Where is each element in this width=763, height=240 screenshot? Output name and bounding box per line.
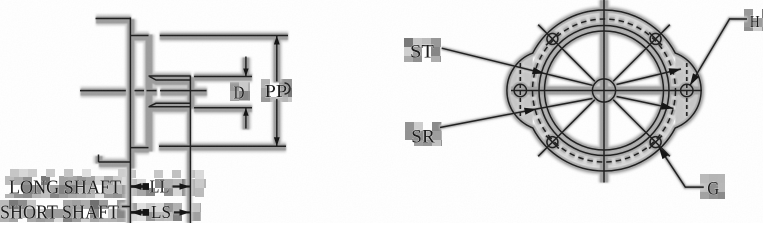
horizontal centerline [511, 90, 702, 92]
bolt hole bottom-right [650, 137, 661, 148]
centerline dash [147, 90, 157, 92]
flange back edge [129, 18, 131, 168]
bolt hole bottom-left [547, 137, 558, 148]
LS dimension tail right [174, 211, 190, 213]
spoke to top-right hole [613, 25, 670, 82]
centerline dash [135, 90, 145, 92]
spoke to bottom-right hole [613, 100, 670, 157]
ear hole right tick [686, 63, 688, 119]
H leader [690, 19, 747, 86]
centerline horizontal [80, 90, 126, 92]
ST arrowhead [532, 67, 545, 74]
bolt hole top-left [547, 33, 558, 44]
G leader [659, 147, 704, 187]
hole tick top-right [649, 33, 662, 46]
shaft hole [592, 79, 615, 102]
PP dimension line top [276, 36, 278, 82]
D arrow down [243, 69, 248, 77]
pointer arrowhead upper-right [669, 68, 682, 75]
LL dimension tail left [131, 185, 149, 188]
artifact glyph fragment right of PP [285, 83, 291, 94]
D dimension line top [245, 57, 247, 77]
bolt circle pointer lower [617, 97, 674, 109]
LL arrow right [180, 183, 191, 189]
register circle [539, 26, 669, 156]
LL arrow left [131, 183, 142, 190]
ST leader [442, 48, 593, 85]
PP bottom extension line [159, 145, 286, 147]
PP arrow up [274, 36, 280, 45]
ear fill right [675, 53, 701, 128]
boss bottom edge [130, 147, 148, 149]
D dimension line bottom [245, 108, 247, 129]
bolt hole top-right [650, 33, 661, 44]
spoke to bottom-left hole [538, 100, 595, 157]
ear hole right [681, 84, 693, 96]
hole tick top-left [546, 33, 559, 46]
vertical centerline [603, 0, 605, 183]
short shaft leader [122, 206, 130, 208]
pointer arrowhead lower-right [661, 103, 674, 110]
D arrow up [243, 108, 248, 116]
D extension line bottom [194, 107, 252, 109]
LS arrow left block [143, 209, 150, 216]
text background artifacts [5, 176, 14, 185]
ear hole left tick [519, 63, 521, 119]
shaft top edge [149, 75, 191, 77]
motor body top edge [96, 18, 131, 20]
shaft end face [189, 76, 191, 108]
PP top extension line [160, 35, 288, 37]
centerline dash [160, 90, 207, 92]
bolt circle (dashed) [533, 19, 676, 162]
D extension line top [194, 76, 252, 78]
shaft bottom flat [150, 103, 191, 106]
LL extension line right [189, 107, 191, 223]
ear fill left [507, 53, 533, 128]
LL dimension tail right [173, 185, 191, 187]
shaft top flat [150, 77, 191, 81]
PP dimension line bottom [276, 99, 278, 146]
ear hole left [514, 84, 526, 96]
SR arrowhead [524, 108, 537, 115]
flange ring tint [528, 14, 681, 167]
LL arrow left block [143, 183, 150, 190]
LL extension line left [129, 167, 131, 223]
H arrowhead [690, 73, 699, 85]
body break hook [98, 155, 100, 163]
hole tick bottom-left [546, 136, 559, 149]
SR leader [440, 99, 593, 128]
shaft bottom edge [149, 106, 191, 108]
pilot circle [545, 31, 664, 150]
bolt circle pointer upper [617, 69, 682, 85]
PP arrow down [274, 137, 280, 146]
flange outline with ears [507, 10, 701, 171]
LS arrow left [131, 209, 142, 216]
motor body bottom edge [99, 161, 131, 163]
boss top edge [130, 35, 148, 37]
G arrowhead [659, 147, 669, 159]
spoke to top-left hole [538, 25, 595, 82]
LS dimension tail left [131, 211, 149, 214]
hole tick bottom-right [649, 136, 662, 149]
LS arrow right [180, 209, 191, 215]
